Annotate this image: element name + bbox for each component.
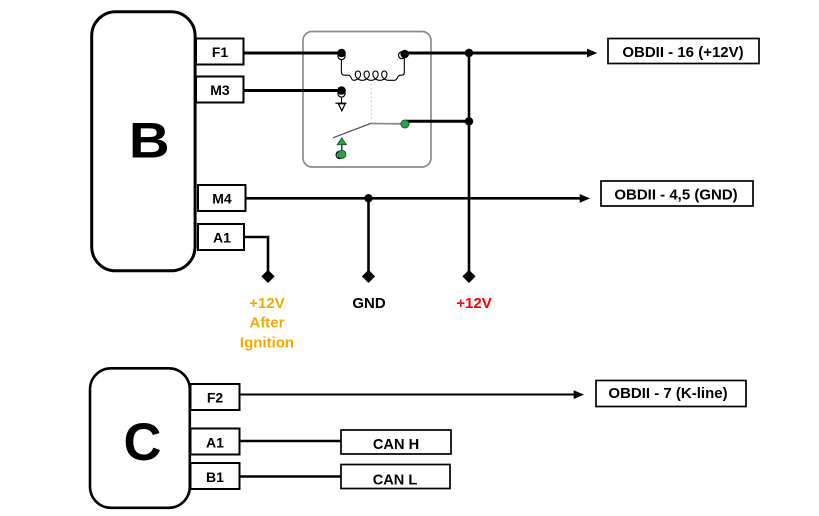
terminal diamond +12V <box>462 270 475 283</box>
terminal diamond GND <box>362 270 375 283</box>
box CAN H <box>341 430 451 454</box>
node junction +12V top <box>465 49 473 57</box>
svg-text:After: After <box>249 315 284 332</box>
relay coil ground stub <box>341 98 343 104</box>
svg-text:OBDII - 4,5 (GND): OBDII - 4,5 (GND) <box>614 187 737 204</box>
relay switch common line <box>371 123 403 125</box>
svg-text:F2: F2 <box>207 390 224 406</box>
relay coil right pin terminal <box>399 50 410 59</box>
svg-text:+12V: +12V <box>456 295 491 312</box>
svg-text:F1: F1 <box>212 44 229 60</box>
wire relay output to +12V line <box>406 120 469 123</box>
relay coil left pin terminal <box>337 49 346 60</box>
relay down triangle <box>335 102 346 104</box>
connector C <box>90 368 190 508</box>
wire relay pin to OBDII-16 arrow <box>405 52 590 55</box>
relay actuator dotted line <box>370 84 372 121</box>
pin B1 <box>191 463 240 489</box>
wire A1 to CAN H <box>240 440 342 442</box>
node junction relay output <box>465 117 473 125</box>
wire A1 to +12V-after-ignition terminal <box>244 237 269 271</box>
svg-text:B1: B1 <box>206 469 224 485</box>
wire M3 to relay coil pin <box>244 89 342 92</box>
svg-text:M4: M4 <box>212 191 232 207</box>
svg-text:+12V: +12V <box>249 295 284 312</box>
svg-text:OBDII - 16 (+12V): OBDII - 16 (+12V) <box>622 44 743 61</box>
relay switch arm <box>333 124 371 138</box>
pin M3 <box>196 77 244 103</box>
svg-text:A1: A1 <box>213 230 231 246</box>
wire +12V vertical <box>468 53 471 271</box>
terminal diamond +12V after ignition <box>261 270 274 283</box>
box OBDII - 4,5 (GND) <box>601 181 753 206</box>
svg-text:M3: M3 <box>210 82 230 98</box>
svg-text:C: C <box>124 413 162 472</box>
box CAN L <box>341 465 450 489</box>
wire M4 to OBDII-4,5 arrow <box>245 197 582 200</box>
relay NO contact triangle <box>337 138 346 145</box>
label +12V After Ignition <box>240 295 294 352</box>
connector B <box>92 12 195 271</box>
relay M3 pin terminal <box>337 86 346 97</box>
svg-text:OBDII - 7 (K-line): OBDII - 7 (K-line) <box>608 385 727 402</box>
relay NO contact terminal <box>336 150 346 158</box>
node junction GND <box>364 194 372 202</box>
svg-text:Ignition: Ignition <box>240 335 294 352</box>
wire F1 to relay coil pin <box>244 52 342 55</box>
relay coil <box>341 57 404 80</box>
svg-text:CAN H: CAN H <box>373 437 419 453</box>
pin A1 (C) <box>191 429 240 455</box>
pin F2 <box>191 384 240 410</box>
relay switch output terminal <box>401 120 409 128</box>
relay NO contact stub <box>341 145 343 151</box>
box OBDII - 16 (+12V) <box>608 39 759 64</box>
relay K1 box <box>303 32 431 168</box>
wire F2 to OBDII-7 arrow <box>240 394 577 396</box>
pin F1 <box>196 39 244 65</box>
box OBDII - 7 (K-line) <box>596 381 746 407</box>
pin A1 <box>198 224 244 250</box>
pin M4 <box>198 185 246 211</box>
svg-text:A1: A1 <box>206 435 224 451</box>
svg-text:B: B <box>129 114 170 169</box>
svg-text:GND: GND <box>352 295 386 312</box>
wire B1 to CAN L <box>240 475 342 477</box>
svg-text:CAN L: CAN L <box>373 473 418 489</box>
wire GND vertical <box>367 198 370 271</box>
